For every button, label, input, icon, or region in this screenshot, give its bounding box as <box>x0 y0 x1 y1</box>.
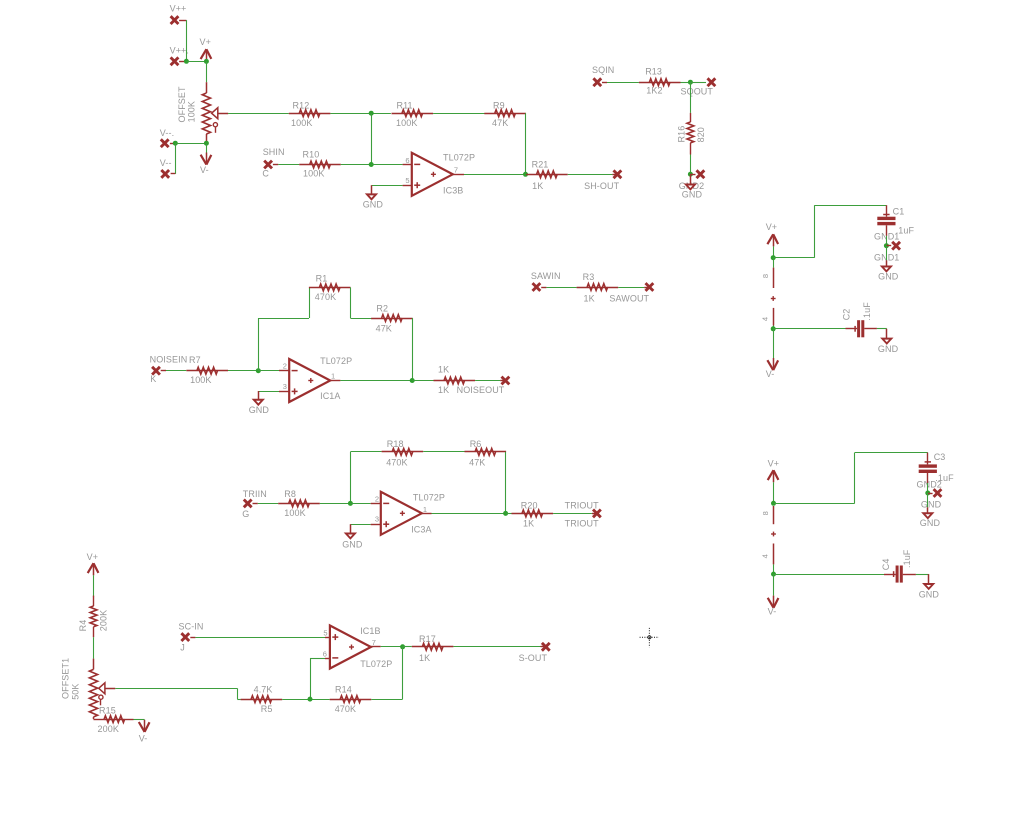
wire <box>258 318 309 320</box>
junction <box>771 255 776 260</box>
resistor R2 labels <box>376 304 392 334</box>
resistor R3 labels <box>583 272 595 304</box>
svg-text:GND: GND <box>878 344 899 354</box>
resistor R10 <box>299 161 341 168</box>
svg-text:IC3A: IC3A <box>411 525 431 535</box>
junction <box>348 501 353 506</box>
svg-text:200K: 200K <box>98 610 108 631</box>
svg-text:5: 5 <box>323 629 327 638</box>
svg-text:R3: R3 <box>583 272 595 282</box>
svg-text:4: 4 <box>761 317 770 321</box>
pin number 6 <box>323 649 327 658</box>
wire <box>506 513 512 515</box>
pin cross X SQIN <box>593 78 607 86</box>
wire <box>877 328 887 330</box>
svg-text:G: G <box>242 509 249 519</box>
svg-text:100K: 100K <box>284 508 305 518</box>
pin cross X GND1 <box>886 242 900 250</box>
svg-text:R2: R2 <box>376 304 388 314</box>
pin cross X GND2 <box>928 489 942 497</box>
svg-text:1: 1 <box>331 371 335 380</box>
svg-text:V-: V- <box>139 733 148 743</box>
wire <box>927 473 929 493</box>
wire pin5 <box>372 185 403 187</box>
IC power pin 8 <box>773 258 775 288</box>
resistor R6 labels <box>469 439 485 467</box>
wire <box>773 329 775 358</box>
svg-text:GND: GND <box>249 405 270 415</box>
net label TRIIN <box>243 489 267 499</box>
svg-text:TRIIN: TRIIN <box>243 489 267 499</box>
svg-text:R11: R11 <box>397 100 413 110</box>
wire <box>175 143 177 174</box>
ground GND stub <box>350 524 352 533</box>
ground GND label <box>363 199 384 209</box>
svg-text:6: 6 <box>405 156 409 165</box>
ground GND symbol <box>252 399 265 406</box>
pin cross X SAWIN <box>533 283 547 291</box>
resistor 1K labels <box>438 364 449 395</box>
potentiometer OFFSET name <box>177 86 187 123</box>
wire <box>412 318 414 381</box>
potentiometer OFFSET trim mark <box>213 123 217 133</box>
capacitor C3 name <box>934 452 946 462</box>
wire pin6 <box>371 164 402 166</box>
wire <box>341 164 371 166</box>
svg-text:IC1B: IC1B <box>360 626 380 636</box>
wire feedback right <box>402 647 404 699</box>
svg-text:8: 8 <box>761 274 770 278</box>
svg-text:TRIOUT: TRIOUT <box>565 518 599 528</box>
pin cross X SQOUT <box>708 78 716 86</box>
potentiometer OFFSET body <box>202 82 210 143</box>
svg-text:GND: GND <box>682 190 703 200</box>
op-amp IC3A <box>381 492 422 535</box>
wire <box>433 113 485 115</box>
resistor R6 <box>465 449 507 456</box>
capacitor C1 value <box>896 226 915 236</box>
net label TRIOUT bottom <box>565 518 599 528</box>
supply symbol V- <box>139 720 150 732</box>
wire <box>403 646 412 648</box>
pin number 2 <box>283 361 287 370</box>
wire <box>237 688 239 699</box>
junction <box>771 501 776 506</box>
wire <box>886 225 888 245</box>
capacitor C2 <box>846 320 877 337</box>
junction <box>204 59 209 64</box>
supply symbol V+ label <box>87 552 98 562</box>
capacitor C1 <box>877 205 895 225</box>
svg-text:V+: V+ <box>87 552 98 562</box>
svg-text:GND: GND <box>342 539 363 549</box>
svg-text:R15: R15 <box>99 706 116 716</box>
svg-text:7: 7 <box>372 638 376 647</box>
svg-text:470K: 470K <box>386 457 407 467</box>
svg-text:2: 2 <box>283 361 287 370</box>
net label V--. <box>160 128 174 138</box>
net label GND1 <box>874 232 899 242</box>
op-amp IC1B <box>330 626 371 669</box>
op-amp IC3A name <box>411 525 431 535</box>
wire to C3 <box>774 453 928 504</box>
svg-text:C3: C3 <box>934 452 946 462</box>
wire <box>927 493 929 507</box>
pin cross X TRIIN <box>244 500 258 508</box>
svg-text:1: 1 <box>423 505 427 514</box>
resistor R15 <box>94 716 134 723</box>
resistor R11 <box>392 110 434 117</box>
svg-text:2: 2 <box>375 494 379 503</box>
wire pin2 <box>350 503 370 505</box>
junction <box>925 491 930 496</box>
ground GND label <box>878 344 899 354</box>
resistor R12 labels <box>291 100 312 128</box>
svg-text:4: 4 <box>761 554 770 558</box>
resistor R16 name <box>676 126 686 143</box>
svg-text:V--: V-- <box>160 158 172 168</box>
svg-text:SC-IN: SC-IN <box>179 622 204 632</box>
pin number 8 <box>761 274 770 278</box>
pin cross X V-- <box>161 170 175 178</box>
wire <box>412 380 433 382</box>
svg-text:470K: 470K <box>335 704 356 714</box>
wire <box>546 287 576 289</box>
svg-text:SAWIN: SAWIN <box>531 271 561 281</box>
cursor crosshair <box>640 628 659 647</box>
svg-text:C1: C1 <box>893 206 905 216</box>
potentiometer OFFSET1 wiper <box>99 683 116 694</box>
svg-text:TL072P: TL072P <box>413 492 445 502</box>
wire V++ stub <box>179 20 186 61</box>
wire <box>773 574 775 596</box>
svg-text:IC1A: IC1A <box>320 391 340 401</box>
resistor R1 labels <box>315 273 336 302</box>
svg-text:OFFSET1: OFFSET1 <box>61 658 71 699</box>
wire <box>320 503 351 505</box>
ground GND stub <box>886 329 888 339</box>
svg-text:1K: 1K <box>438 385 449 395</box>
ground GND label <box>682 190 703 200</box>
svg-text:GND2: GND2 <box>917 480 942 490</box>
capacitor C1 name <box>893 206 905 216</box>
pin cross X V--. <box>161 139 176 147</box>
power part origin + <box>771 296 776 301</box>
supply symbol V+ <box>88 563 99 575</box>
junction node <box>369 111 374 116</box>
svg-text:6: 6 <box>323 649 327 658</box>
pin number 1 <box>423 505 427 514</box>
resistor R18 labels <box>386 439 407 467</box>
junction <box>204 141 209 146</box>
wire <box>423 451 465 453</box>
resistor R13 labels <box>645 66 662 95</box>
wire pin3 <box>258 391 279 393</box>
net label S-OUT <box>519 653 548 663</box>
supply symbol V+ <box>201 49 212 61</box>
potentiometer OFFSET wiper <box>212 108 229 119</box>
resistor R5 labels <box>254 685 273 714</box>
svg-text:V+: V+ <box>768 459 779 469</box>
op-amp IC3A value TL072P <box>413 492 445 502</box>
supply symbol V- label <box>768 607 777 617</box>
ground GND symbol <box>344 533 357 540</box>
net label GND <box>921 500 942 510</box>
svg-text:R10: R10 <box>303 150 320 160</box>
svg-text:SHIN: SHIN <box>263 147 285 157</box>
svg-text:GND: GND <box>919 589 940 599</box>
svg-text:TRIOUT: TRIOUT <box>565 500 599 510</box>
resistor R4 value 200K <box>98 610 108 631</box>
wire output <box>381 646 403 648</box>
capacitor C2 name <box>842 309 852 321</box>
wire <box>93 637 95 658</box>
supply symbol V- <box>768 596 779 608</box>
op-amp IC3B pin stubs <box>403 165 464 186</box>
pin cross X SHIN <box>264 161 278 169</box>
svg-text:.1uF: .1uF <box>862 302 872 321</box>
ground GND label <box>920 518 941 528</box>
wire <box>350 287 352 318</box>
svg-text:100K: 100K <box>187 101 197 122</box>
svg-text:NOISEOUT: NOISEOUT <box>457 385 505 395</box>
resistor R17 <box>412 643 454 650</box>
wire <box>916 574 929 576</box>
svg-text:TL072P: TL072P <box>320 356 352 366</box>
wire <box>195 637 325 639</box>
op-amp IC3B name <box>443 186 463 196</box>
wire <box>773 328 845 330</box>
op-amp IC1A pin stubs <box>279 371 340 392</box>
svg-text:OFFSET: OFFSET <box>177 86 187 123</box>
wire <box>690 82 692 113</box>
wire <box>618 287 644 289</box>
capacitor C2 value <box>862 302 872 321</box>
pin cross X SC-IN <box>181 633 195 641</box>
wire <box>371 699 402 701</box>
capacitor C4 value <box>902 549 912 568</box>
ground GND label <box>878 272 899 282</box>
net label GND2 <box>679 181 704 191</box>
wire riser <box>310 658 312 699</box>
resistor R11 labels <box>396 100 417 128</box>
resistor R10 labels <box>303 150 325 179</box>
pin name J <box>180 642 185 652</box>
wire <box>886 246 888 261</box>
svg-text:R8: R8 <box>284 489 296 499</box>
junction <box>400 644 405 649</box>
net label GND2 <box>917 480 942 490</box>
potentiometer OFFSET1 name <box>61 658 71 699</box>
wire <box>186 61 206 63</box>
net label TRIOUT top <box>565 500 599 510</box>
net label SC-IN <box>179 622 204 632</box>
wire from R10 junction to pin6 <box>371 113 373 164</box>
svg-text:100K: 100K <box>190 375 211 385</box>
supply symbol V+ <box>767 234 778 246</box>
power part origin + <box>771 532 776 537</box>
resistor R18 <box>382 449 424 456</box>
resistor R15 labels <box>98 706 119 734</box>
junction <box>771 326 776 331</box>
svg-text:R9: R9 <box>493 100 505 110</box>
resistor R9 <box>484 110 526 117</box>
svg-text:IC3B: IC3B <box>443 186 463 196</box>
resistor R20 <box>512 510 554 517</box>
ground GND label <box>342 539 363 549</box>
wire wiper to R12 <box>228 113 289 115</box>
svg-text:GND: GND <box>920 518 941 528</box>
net label V-- <box>160 158 172 168</box>
ground GND symbol <box>365 193 378 200</box>
junction <box>771 572 776 577</box>
wire <box>475 380 500 382</box>
pin cross X NOISEOUT <box>500 377 509 385</box>
svg-text:SAWOUT: SAWOUT <box>609 294 649 304</box>
pin number 4 <box>761 554 770 558</box>
supply symbol V- label <box>200 165 209 175</box>
resistor R16 value 820 <box>696 127 706 142</box>
resistor R4 name <box>78 620 88 632</box>
potentiometer OFFSET1 value 50K <box>71 683 81 699</box>
svg-text:C2: C2 <box>842 309 852 321</box>
ground GND stub <box>928 574 930 584</box>
net label SAWOUT <box>609 294 649 304</box>
op-amp IC1B pin stubs <box>325 638 381 659</box>
junction <box>503 511 508 516</box>
wire wiper <box>115 688 237 690</box>
pin cross X SAWOUT <box>644 283 653 291</box>
op-amp IC1B value TL072P <box>360 659 392 669</box>
junction <box>523 172 528 177</box>
junction <box>688 80 693 85</box>
resistor R7 value <box>190 375 211 385</box>
supply symbol V+ <box>768 470 779 482</box>
wire <box>681 82 691 84</box>
supply symbol V- label <box>766 369 775 379</box>
net label SQOUT <box>681 87 714 97</box>
svg-text:V+: V+ <box>766 222 777 232</box>
capacitor C3 <box>919 453 937 473</box>
wire pin2 <box>258 370 279 372</box>
wire <box>553 513 592 515</box>
svg-text:SH-OUT: SH-OUT <box>584 181 619 191</box>
wire output <box>340 380 412 382</box>
pin cross X NOISEIN <box>152 367 166 375</box>
wire <box>258 503 278 505</box>
op-amp IC1B name <box>360 626 380 636</box>
potentiometer OFFSET1 trim mark <box>99 695 103 705</box>
svg-text:100K: 100K <box>303 169 324 179</box>
svg-text:K: K <box>150 374 156 384</box>
ground GND stub <box>690 174 692 184</box>
resistor R20 labels <box>521 500 538 528</box>
resistor R8 <box>278 500 320 507</box>
wire <box>282 699 330 701</box>
wire <box>309 287 311 318</box>
wire <box>350 318 371 320</box>
svg-text:R4: R4 <box>78 620 88 632</box>
svg-text:S-OUT: S-OUT <box>519 653 548 663</box>
svg-text:100K: 100K <box>396 118 417 128</box>
resistor R21 labels <box>532 159 549 191</box>
op-amp IC1A <box>289 359 330 402</box>
svg-text:R1: R1 <box>316 273 328 283</box>
svg-text:C: C <box>262 168 269 178</box>
junction <box>688 172 693 177</box>
svg-text:100K: 100K <box>291 118 312 128</box>
resistor R12 <box>289 110 331 117</box>
wire <box>568 174 613 176</box>
pin cross X S-OUT <box>541 643 550 651</box>
ground GND stub <box>258 391 260 400</box>
wire <box>774 574 885 576</box>
svg-text:47K: 47K <box>492 118 508 128</box>
svg-text:R17: R17 <box>419 634 436 644</box>
wire <box>278 164 299 166</box>
svg-text:J: J <box>180 642 185 652</box>
op-amp IC3B value TL072P <box>443 152 475 162</box>
svg-text:1K: 1K <box>419 653 430 663</box>
net label SHIN <box>263 147 285 157</box>
svg-text:4.7K: 4.7K <box>254 685 273 695</box>
svg-text:C4: C4 <box>881 558 891 570</box>
wire <box>773 246 775 257</box>
resistor R3 <box>577 284 619 291</box>
svg-text:47K: 47K <box>376 323 392 333</box>
ground GND stub <box>371 185 373 194</box>
svg-text:R18: R18 <box>387 439 404 449</box>
wire feedback down <box>505 452 507 514</box>
svg-text:1K: 1K <box>584 294 595 304</box>
pin name C <box>262 168 269 178</box>
svg-text:1K: 1K <box>523 518 534 528</box>
svg-text:TL072P: TL072P <box>360 659 392 669</box>
wire <box>350 451 381 453</box>
svg-text:.1uF: .1uF <box>902 549 912 568</box>
svg-text:V-: V- <box>766 369 775 379</box>
wire <box>453 646 540 648</box>
wire <box>690 82 706 84</box>
svg-text:8: 8 <box>761 511 770 515</box>
ground GND symbol <box>684 184 697 191</box>
svg-text:GND: GND <box>878 272 899 282</box>
net label SH-OUT <box>584 181 619 191</box>
wire <box>228 370 258 372</box>
op-amp IC3B <box>412 153 453 196</box>
resistor R7 name <box>189 355 201 365</box>
pin cross X TRIOUT <box>592 510 601 518</box>
pin number 3 <box>375 515 379 524</box>
pin number 1 <box>331 371 335 380</box>
svg-text:NOISEIN: NOISEIN <box>150 355 188 365</box>
pin number 5 <box>405 176 409 185</box>
svg-text:R7: R7 <box>189 355 201 365</box>
net label SAWIN <box>531 271 561 281</box>
resistor R9 labels <box>492 100 508 128</box>
svg-text:1K2: 1K2 <box>646 86 662 96</box>
pin number 2 <box>375 494 379 503</box>
ground GND symbol <box>921 512 934 519</box>
resistor 1K <box>434 377 476 384</box>
supply symbol V+ label <box>766 222 777 232</box>
resistor R2 <box>371 315 413 322</box>
svg-text:R16: R16 <box>676 126 686 143</box>
wire <box>206 143 208 152</box>
svg-text:V-: V- <box>768 607 777 617</box>
net label SQIN <box>592 65 614 75</box>
svg-text:470K: 470K <box>315 292 336 302</box>
